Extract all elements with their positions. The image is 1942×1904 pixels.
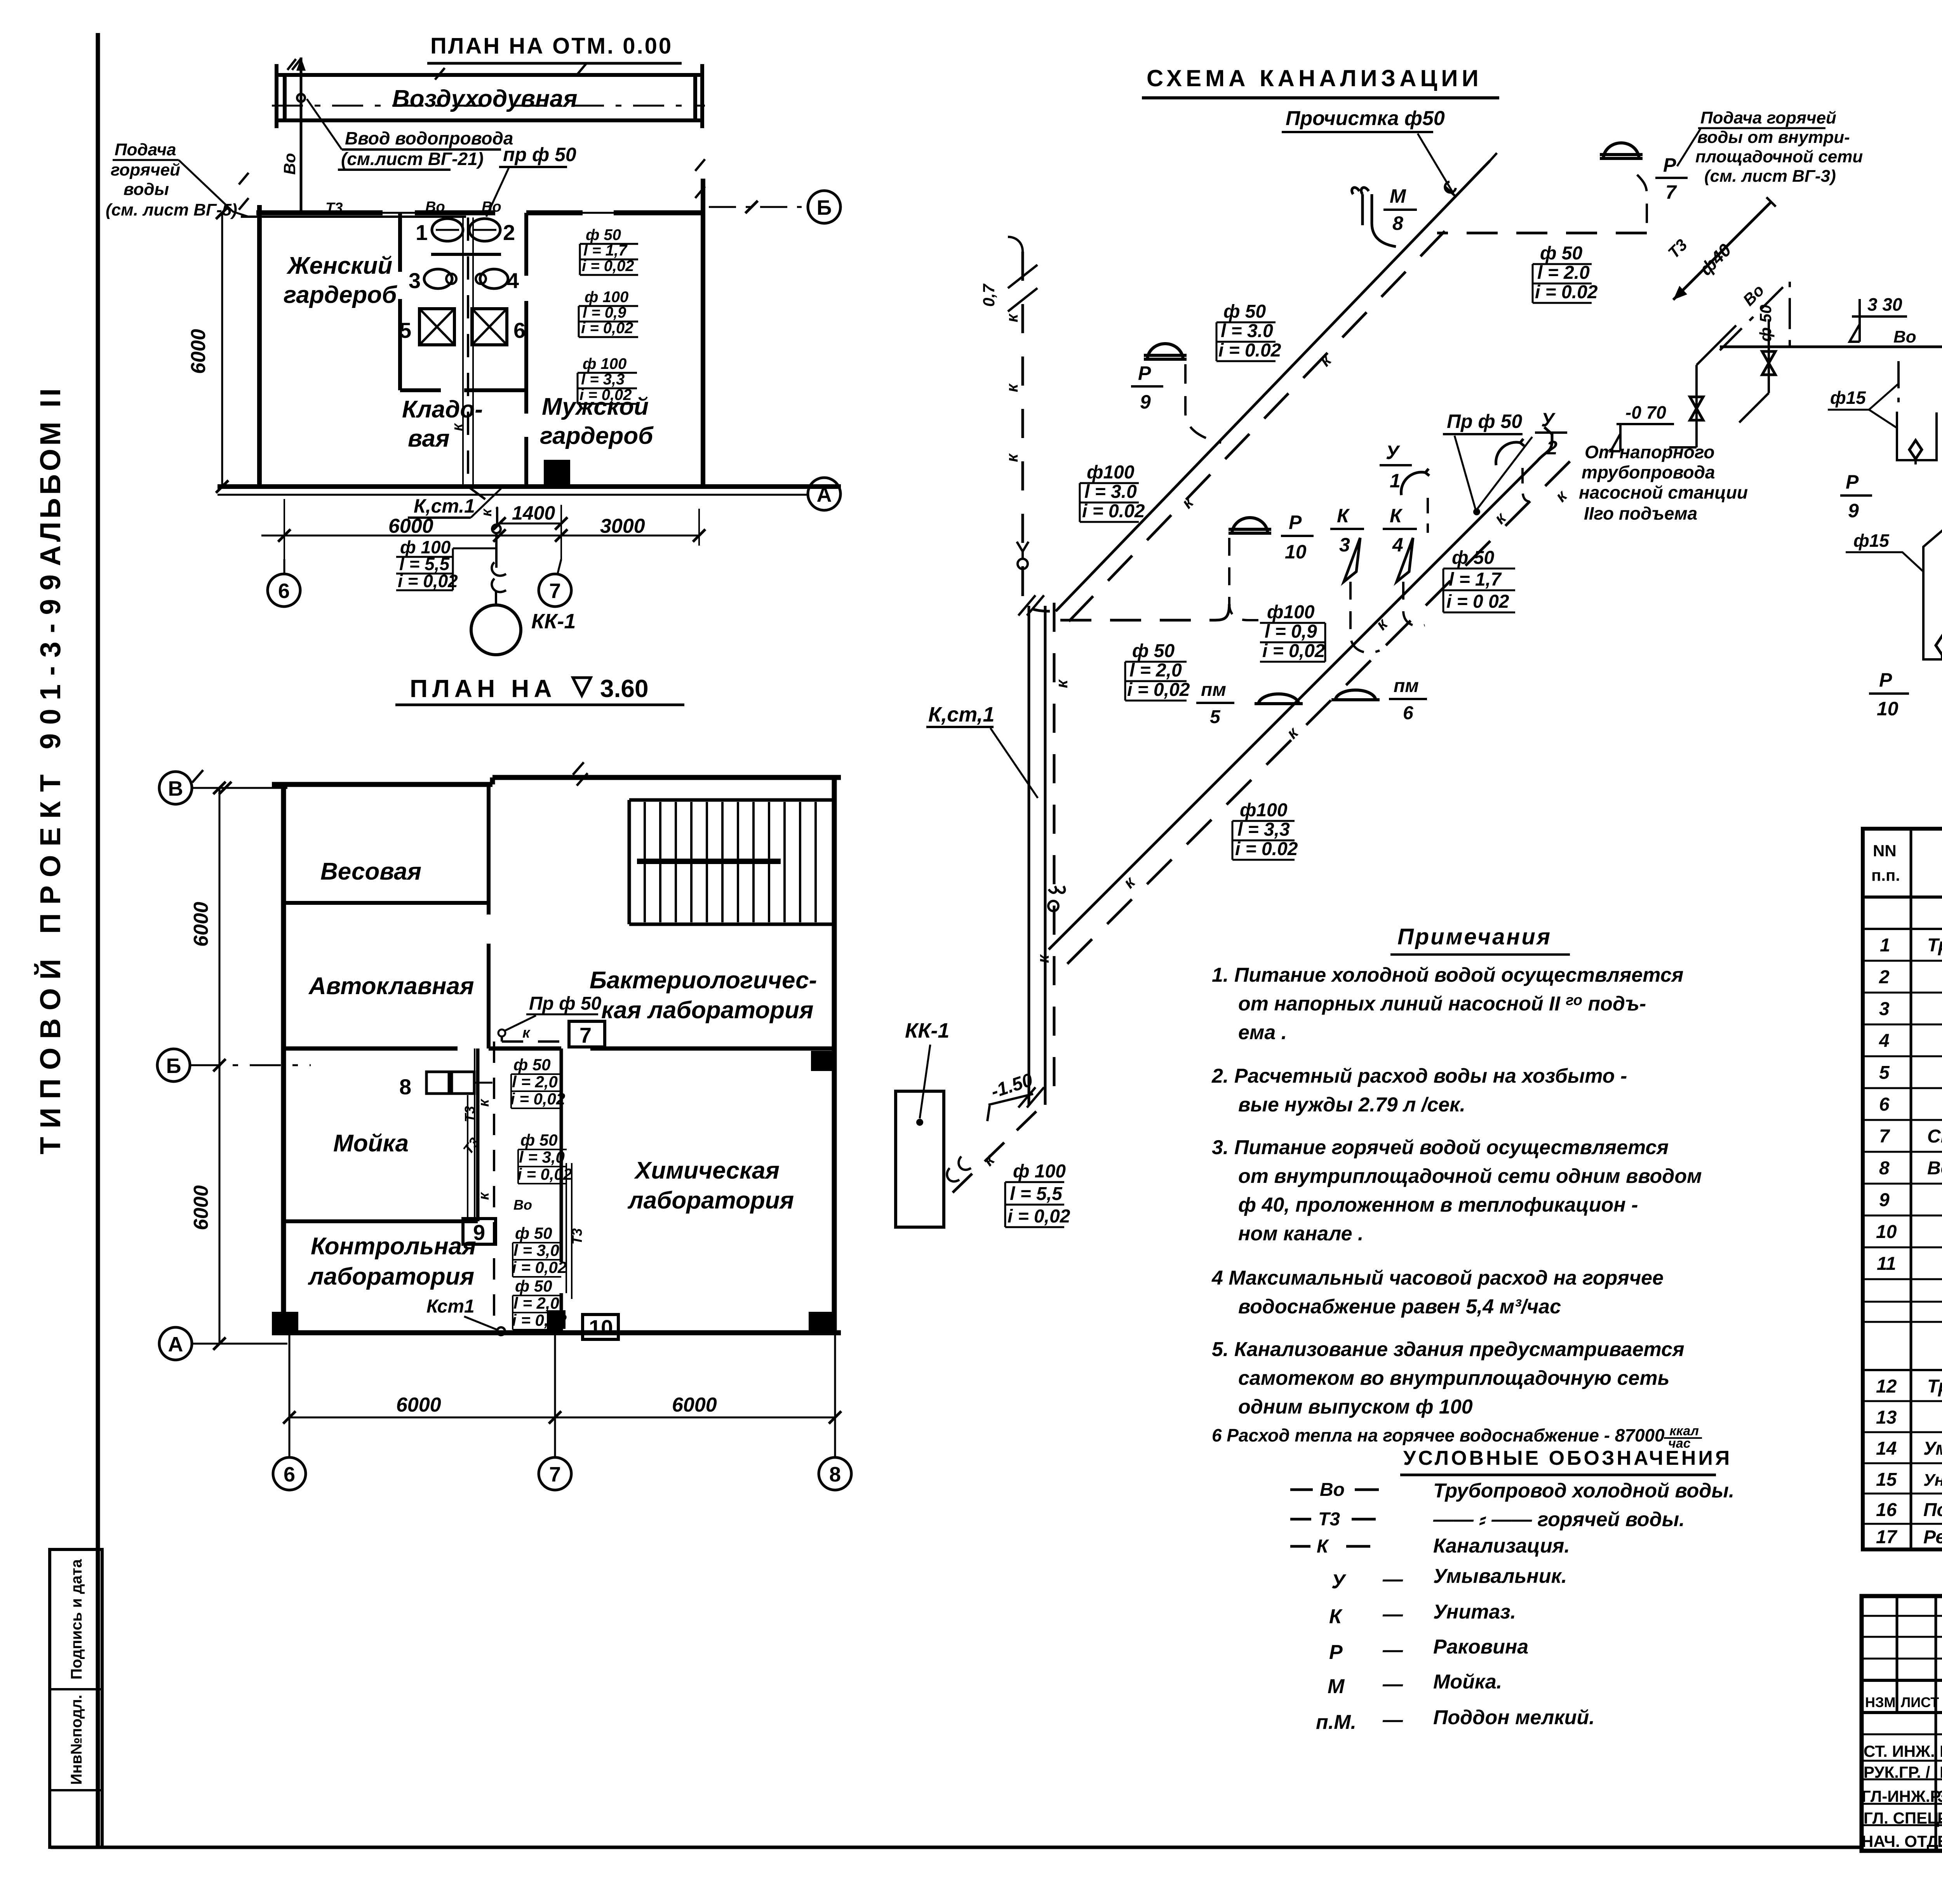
svg-text:к: к [1053,679,1071,688]
svg-text:А: А [168,1333,183,1356]
interior wall Мойка/Контрольная [286,1219,478,1223]
stand dashed K companion [1053,603,1056,1108]
svg-text:воды: воды [124,180,169,199]
break marks on air-blower [287,59,586,80]
left section column lines [1897,1596,1942,1851]
sink Р/10 [1229,518,1271,534]
svg-text:п.М.: п.М. [1316,1711,1356,1734]
vent top hook [1490,153,1497,161]
svg-text:ф 100: ф 100 [583,355,626,372]
svg-text:Подача горячей: Подача горячей [1700,108,1836,127]
staff row lines [1862,1734,1942,1825]
svg-text:М: М [1390,185,1406,207]
svg-text:АЛЬБОМ II: АЛЬБОМ II [34,385,66,566]
svg-text:i = 0,02: i = 0,02 [512,1258,567,1276]
table column lines [1911,829,1942,1549]
svg-text:У: У [1386,442,1401,463]
svg-text:7: 7 [549,1463,561,1486]
svg-text:3 30: 3 30 [1867,294,1902,315]
grid circle Б [157,1049,190,1082]
svg-text:6000: 6000 [388,515,433,537]
air-blower building outline [276,64,702,128]
grid circle А right [808,478,840,510]
branch pipe to Р/7 dashed [1437,232,1647,235]
svg-text:Пр ф 50: Пр ф 50 [1447,410,1522,432]
svg-text:гардероб: гардероб [284,282,397,308]
cold water intro diagonal В0 [1720,280,1790,350]
svg-text:от внутриплощадочной сети о: от внутриплощадочной сети одним вводом [1238,1165,1702,1188]
sink 2 [469,219,500,241]
svg-text:1. Питание холодной водой: 1. Питание холодной водой осуществляется [1212,964,1683,986]
grid circle Б right [808,191,840,223]
svg-text:ЛИСТ: ЛИСТ [1901,1694,1939,1710]
svg-text:10: 10 [589,1315,613,1340]
svg-text:9: 9 [1879,1190,1890,1210]
water inlet riser Во [300,57,303,213]
svg-text:-0 70: -0 70 [1625,402,1666,423]
svg-text:Женский: Женский [286,252,392,279]
svg-text:l = 3.0: l = 3.0 [1084,482,1137,502]
svg-text:ЗАПЛЕТОХИН: ЗАПЛЕТОХИН [1937,1787,1942,1805]
cleanout tick on vent [1445,182,1456,197]
grid circle В [159,772,192,804]
row 7 [1879,1126,1942,1147]
svg-text:l = 2,0: l = 2,0 [513,1294,559,1312]
pipe label stack ф100 l=0.9 [1262,602,1325,661]
svg-text:3.60: 3.60 [600,675,649,702]
svg-text:II⁠го подъема: II⁠го подъема [1584,503,1697,523]
svg-text:воды от внутри-: воды от внутри- [1697,128,1850,147]
pipe label stack ф100 l=5.5 [1008,1161,1070,1227]
svg-text:УСЛОВНЫЕ ОБОЗНАЧЕНИЯ: УСЛОВНЫЕ ОБОЗНАЧЕНИЯ [1403,1447,1732,1469]
svg-text:Вентиль муфтовый Ф50: Вентиль муфтовый Ф50 [1927,1158,1942,1179]
svg-text:8: 8 [829,1463,841,1486]
svg-text:6: 6 [1403,703,1413,723]
svg-text:Смеситель СМ-Д - СТ: Смеситель СМ-Д - СТ [1927,1126,1942,1147]
svg-text:ф 50: ф 50 [515,1277,552,1295]
svg-text:СТ. ИНЖ.: СТ. ИНЖ. [1864,1742,1935,1760]
grid circle 6 [268,574,300,607]
svg-text:i = 0.02: i = 0.02 [1535,282,1598,303]
svg-text:КК-1: КК-1 [905,1019,949,1042]
svg-text:4: 4 [1879,1031,1890,1051]
svg-text:l = 2,0: l = 2,0 [512,1073,558,1091]
bottom dimension line [261,535,699,537]
outlet dashed diagonal to KK-1 [943,1111,1036,1202]
svg-text:6: 6 [284,1463,295,1486]
shower tray 5 [419,309,454,345]
svg-text:8: 8 [399,1075,411,1099]
svg-text:i = 0 02: i = 0 02 [1446,591,1509,612]
svg-text:Т3: Т3 [1318,1509,1340,1530]
svg-text:5: 5 [1879,1062,1890,1083]
svg-text:насосной станции: насосной станции [1579,482,1748,503]
svg-text:10: 10 [1877,698,1898,720]
stand K.st.1 double vertical [1029,606,1045,1105]
svg-text:—— ⸗ —— горячей воды.: —— ⸗ —— горячей воды. [1433,1508,1685,1531]
dimension 1400 [499,523,561,525]
svg-text:самотеком во внутриплощадочн: самотеком во внутриплощадочную сеть [1238,1367,1669,1389]
pipe label stack ф100 l=0.9 [581,289,633,337]
pan ПМ/5 on line [1255,694,1303,704]
sink M/8 symbol [1352,188,1396,247]
interior wall axis Б [286,1047,834,1051]
svg-text:ф 50: ф 50 [520,1131,558,1149]
leader from Пр ф50 to pipe [1455,436,1532,511]
svg-text:к: к [1178,493,1197,512]
svg-text:К,ст,1: К,ст,1 [928,703,995,726]
svg-text:6000: 6000 [190,902,212,947]
svg-text:7: 7 [579,1023,592,1047]
svg-text:Канализация.: Канализация. [1433,1535,1570,1557]
svg-text:2: 2 [1879,967,1890,988]
svg-text:11: 11 [1877,1254,1896,1274]
svg-text:Мойка: Мойка [333,1130,409,1157]
svg-text:3: 3 [409,268,421,293]
svg-text:7: 7 [549,579,561,603]
svg-text:ф 40, проложенном в тепло: ф 40, проложенном в теплофикацион - [1238,1194,1638,1216]
svg-text:РАБИНОВИЧ: РАБИНОВИЧ [1937,1809,1942,1827]
svg-text:3. Питание горячей водой: 3. Питание горячей водой осуществляется [1212,1136,1669,1159]
svg-text:i = 0.02: i = 0.02 [1235,839,1298,859]
svg-text:водоснабжение равен 5,4 м³/ч: водоснабжение равен 5,4 м³/час [1238,1295,1561,1318]
svg-text:6000: 6000 [396,1394,441,1416]
title block outer border [1862,1596,1942,1851]
svg-text:5. Канализование здания пре: 5. Канализование здания предусматриваетс… [1212,1338,1684,1361]
svg-text:п.п.: п.п. [1871,866,1900,884]
table outer border [1863,829,1942,1549]
svg-text:пр ф 50: пр ф 50 [503,144,576,165]
row 10 [1876,1222,1942,1242]
svg-text:к: к [979,1150,999,1169]
interior wall storeroom [400,388,526,392]
svg-text:ПЛАН НА ОТМ. 0.00: ПЛАН НА ОТМ. 0.00 [430,33,673,59]
svg-text:НАЧ. ОТД.: НАЧ. ОТД. [1862,1832,1942,1850]
pipe label stack ф50 l=1.7 [1446,548,1509,612]
svg-text:У: У [1541,409,1556,431]
pipe label stack ф50 l=2.0 box7 [510,1055,565,1108]
svg-text:ф100: ф100 [1267,602,1315,622]
svg-text:8: 8 [1879,1158,1890,1179]
bottom dimension line [289,1417,835,1419]
svg-text:ном канале .: ном канале . [1238,1222,1363,1245]
pipe label stack ф50 l=3.0 lower [512,1224,567,1276]
svg-text:Во: Во [280,153,299,175]
svg-text:Б: Б [817,196,832,219]
svg-text:l = 3.0: l = 3.0 [1221,321,1273,341]
svg-text:Унитаз компакт-керамический: Унитаз компакт-керамический [1923,1471,1942,1490]
svg-text:кая лаборатория: кая лаборатория [601,997,814,1024]
sink 1 [432,219,463,241]
row 16 [1876,1500,1942,1520]
svg-text:одним выпуском ф 100: одним выпуском ф 100 [1238,1396,1473,1418]
svg-text:9: 9 [473,1220,485,1245]
svg-text:Кст1: Кст1 [426,1296,475,1317]
svg-text:8: 8 [1392,212,1403,234]
svg-text:к: к [476,1099,492,1107]
row 14 [1876,1438,1942,1459]
sheet frame bottom border [50,1846,1861,1849]
svg-text:13: 13 [1876,1407,1897,1428]
svg-text:У: У [1331,1570,1347,1593]
svg-text:НЗМ: НЗМ [1865,1694,1896,1710]
svg-text:Примечания: Примечания [1397,924,1552,949]
elbow joining stand [1023,569,1050,611]
svg-text:Пр ф 50: Пр ф 50 [529,993,602,1014]
lower sewer main solid diagonal [1049,427,1552,949]
vertical dimension 6000 left [221,213,223,487]
svg-text:лаборатория: лаборатория [308,1263,474,1290]
pan ПМ/6 on companion [1331,690,1380,701]
hot water pipe T3 to building [241,216,466,218]
svg-text:l = 3,0: l = 3,0 [513,1241,559,1259]
pipe label stack ф50 l=1.7 [582,226,634,275]
svg-text:Поддон мелкий.: Поддон мелкий. [1433,1706,1595,1729]
row 6 [1879,1094,1942,1115]
svg-text:горячей: горячей [111,160,180,179]
risers from pump station with valves [1669,319,1769,447]
row 8 [1879,1158,1942,1179]
svg-text:ф 100: ф 100 [585,289,628,306]
svg-text:i = 0,02: i = 0,02 [1127,680,1190,700]
svg-text:4: 4 [507,268,519,293]
margin stamp box bottom-left [50,1549,102,1847]
svg-text:7: 7 [1879,1126,1890,1147]
svg-text:ф 50: ф 50 [586,226,621,243]
axis tick marks top walls [239,159,705,210]
legend Во cold water [1290,1488,1379,1491]
pipe label stack ф50 l=3.0 [517,1131,572,1183]
svg-text:—: — [1382,1673,1403,1695]
svg-text:Прочистка ф50: Прочистка ф50 [1286,107,1445,130]
svg-text:9: 9 [1140,391,1151,413]
row 11 [1877,1254,1942,1274]
svg-text:1: 1 [1390,470,1401,492]
svg-text:l = 5,5: l = 5,5 [1010,1184,1063,1204]
svg-text:3: 3 [1339,534,1350,556]
svg-text:NN: NN [1873,842,1897,860]
partition between sinks and WC [431,253,501,256]
svg-text:к: к [1003,383,1021,392]
svg-text:Ввод водопровода: Ввод водопровода [345,128,513,148]
svg-text:КАРПОВА: КАРПОВА [1940,1742,1942,1760]
toilet 3 [424,269,452,289]
svg-text:ф 50: ф 50 [515,1224,552,1242]
svg-text:1: 1 [1880,935,1890,956]
svg-text:к: к [1034,954,1052,963]
svg-text:Мойка.: Мойка. [1433,1671,1502,1693]
pipe label stack ф100 l=5.5 [398,537,458,591]
svg-text:14: 14 [1876,1438,1897,1459]
svg-text:2: 2 [1546,437,1557,459]
svg-text:Трубопровод холодной воды.: Трубопровод холодной воды. [1433,1480,1734,1502]
svg-text:Труба: Труба [1927,935,1942,956]
svg-text:6: 6 [278,579,290,603]
svg-text:Р: Р [1879,669,1892,691]
DL elbow down to Р/10 loop [1923,528,1942,659]
svg-text:ГЛ-ИНЖ.РВ: ГЛ-ИНЖ.РВ [1862,1787,1942,1805]
interior vertical walls chase [478,1049,561,1333]
svg-text:Автоклавная: Автоклавная [308,973,474,1000]
row 1 [1880,935,1942,956]
svg-text:6: 6 [513,318,526,343]
building right wall [832,777,837,1333]
svg-text:К: К [1317,1536,1329,1557]
legend К sewer [1290,1545,1370,1548]
table rows sewer [1863,1401,1942,1524]
svg-text:6000: 6000 [190,1185,212,1230]
row 12 [1876,1376,1942,1397]
vertical dimension line left [219,788,221,1344]
pipe label stack ф100 l=3.3 [1235,800,1298,859]
svg-text:Химическая: Химическая [634,1157,780,1184]
svg-text:Подача: Подача [115,140,176,159]
svg-text:К: К [1390,505,1403,527]
svg-text:l = 2.0: l = 2.0 [1537,263,1590,283]
svg-text:l = 3,0: l = 3,0 [519,1148,565,1166]
manhole KK-1 circle [471,605,521,655]
building left wall [281,784,286,1333]
svg-text:Инв№подл.: Инв№подл. [68,1695,85,1785]
svg-text:от напорных линий насосной I: от напорных линий насосной II го подъ- [1238,992,1646,1015]
svg-text:БРАСЛАВСКИЙ: БРАСЛАВСКИЙ [1937,1832,1942,1850]
Р/9 connection loop [1897,361,1900,412]
svg-text:Р: Р [1138,362,1151,384]
svg-text:16: 16 [1876,1500,1897,1520]
svg-text:ф 50: ф 50 [1132,641,1175,661]
svg-text:Бактериологичес-: Бактериологичес- [590,967,817,994]
svg-text:ф100: ф100 [1087,462,1135,483]
svg-text:(см.лист ВГ-21): (см.лист ВГ-21) [341,149,484,169]
dark unit in men's cloakroom [544,460,570,488]
svg-text:Р: Р [1663,154,1676,176]
staircase [629,800,834,924]
svg-text:Р: Р [1846,471,1859,493]
svg-text:Подпись и дата: Подпись и дата [68,1559,85,1680]
svg-text:l = 0,9: l = 0,9 [1265,621,1317,642]
svg-text:3000: 3000 [600,515,645,537]
pipe label stack ф100 l=3.0 [1082,462,1145,522]
pipe label stack ф50 l=2.0 at P7 [1535,243,1598,303]
legend Т3 hot water [1290,1518,1376,1521]
svg-text:Т3: Т3 [1664,235,1691,262]
svg-text:12: 12 [1876,1376,1897,1397]
main building bottom wall / axis А line [218,484,841,489]
0.7 dimension mark [1008,256,1037,311]
interior wall women's cloakroom [398,213,402,390]
row 2 [1879,967,1942,988]
grid circle 8 bottom [819,1457,851,1490]
main building left wall [257,205,262,487]
svg-text:ф 50: ф 50 [1452,548,1495,568]
svg-text:К: К [1329,1605,1343,1628]
svg-text:Ревизия круглая Ф100: Ревизия круглая Ф100 [1923,1527,1942,1548]
svg-text:i = 0.02: i = 0.02 [1218,340,1281,361]
branch from stand to Р/10 [1060,604,1229,620]
numbered box 9 [463,1219,496,1244]
svg-text:К,ст.1: К,ст.1 [414,495,475,517]
svg-text:i = 0,02: i = 0,02 [517,1165,572,1183]
svg-text:СХЕМА КАНАЛИЗАЦИИ: СХЕМА КАНАЛИЗАЦИИ [1147,65,1483,91]
svg-text:6: 6 [1879,1094,1890,1115]
grid circle 6 bottom [273,1457,306,1490]
pipe label stack ф50 l=2.0 [1127,641,1190,700]
grid circle 7 bottom [539,1457,571,1490]
numbered box 10 [583,1315,618,1339]
svg-text:Поддон душевой мелкий: Поддон душевой мелкий [1923,1500,1942,1520]
svg-text:Б: Б [166,1054,181,1078]
svg-text:Умывальник керамический: Умывальник керамический [1923,1438,1942,1459]
pipe label stack ф100 l=3.3 [579,355,632,403]
svg-text:2: 2 [503,220,515,245]
svg-text:ф 50: ф 50 [1223,301,1266,322]
svg-text:l = 1,7: l = 1,7 [1449,569,1502,590]
appliance 8 washers [426,1072,449,1094]
svg-text:l = 2,0: l = 2,0 [1129,660,1182,681]
svg-text:10: 10 [1285,541,1307,563]
row 15 [1876,1469,1942,1490]
svg-text:ф 50: ф 50 [513,1055,551,1074]
pipe chase double wall [463,217,473,485]
svg-text:Р: Р [1329,1641,1343,1664]
row 9 [1879,1190,1942,1210]
toilet 4 [480,269,508,289]
sink Р/9 [1144,344,1187,360]
svg-text:ГЛ. СПЕЦ.: ГЛ. СПЕЦ. [1864,1809,1942,1827]
main building right wall [701,179,705,487]
svg-text:15: 15 [1876,1469,1897,1490]
svg-text:РУК.ГР. /: РУК.ГР. / [1864,1763,1930,1781]
svg-text:Весовая: Весовая [320,858,421,885]
pipe label stack ф50 l=2.0 lower [512,1277,567,1329]
row 3 [1879,999,1942,1019]
sheet frame left border [96,33,100,1848]
pipe label stack ф50 l=3.0 [1218,301,1281,361]
svg-text:пм: пм [1201,680,1226,700]
svg-text:КК-1: КК-1 [531,610,576,633]
svg-text:—: — [1382,1709,1403,1731]
svg-text:ПЛАН НА: ПЛАН НА [410,675,557,702]
svg-text:Унитаз.: Унитаз. [1433,1601,1516,1623]
svg-text:3: 3 [1879,999,1890,1019]
svg-text:0,7: 0,7 [980,283,998,307]
svg-text:ф100: ф100 [1240,800,1288,821]
svg-text:l = 3,3: l = 3,3 [1237,819,1290,840]
revision rows [1862,1616,1942,1659]
svg-text:ф 50: ф 50 [1756,304,1775,342]
grid circle А [159,1327,192,1360]
svg-text:Воздуходувная: Воздуходувная [392,85,578,112]
svg-text:вые нужды 2.79 л /сек.: вые нужды 2.79 л /сек. [1238,1094,1465,1116]
svg-text:Раковина: Раковина [1433,1636,1528,1658]
svg-text:От напорного: От напорного [1585,442,1715,462]
svg-text:гардероб: гардероб [540,423,654,449]
fitting with revision on K line [1017,542,1028,558]
table header row [1863,895,1942,899]
lower sewer dashed companion [1067,461,1570,964]
svg-text:К: К [1337,505,1350,527]
building bottom wall [272,1330,841,1335]
svg-text:В: В [168,777,183,800]
shower tray 6 [472,309,507,345]
grid circle 7 [539,574,571,607]
sewer riser dashed K in chase [467,217,469,485]
svg-text:А: А [817,483,832,506]
svg-text:i = 0,02: i = 0,02 [1262,641,1325,661]
svg-text:Р: Р [1289,511,1302,533]
corner piers [272,1312,298,1335]
upper sewer main solid diagonal [1056,161,1490,611]
